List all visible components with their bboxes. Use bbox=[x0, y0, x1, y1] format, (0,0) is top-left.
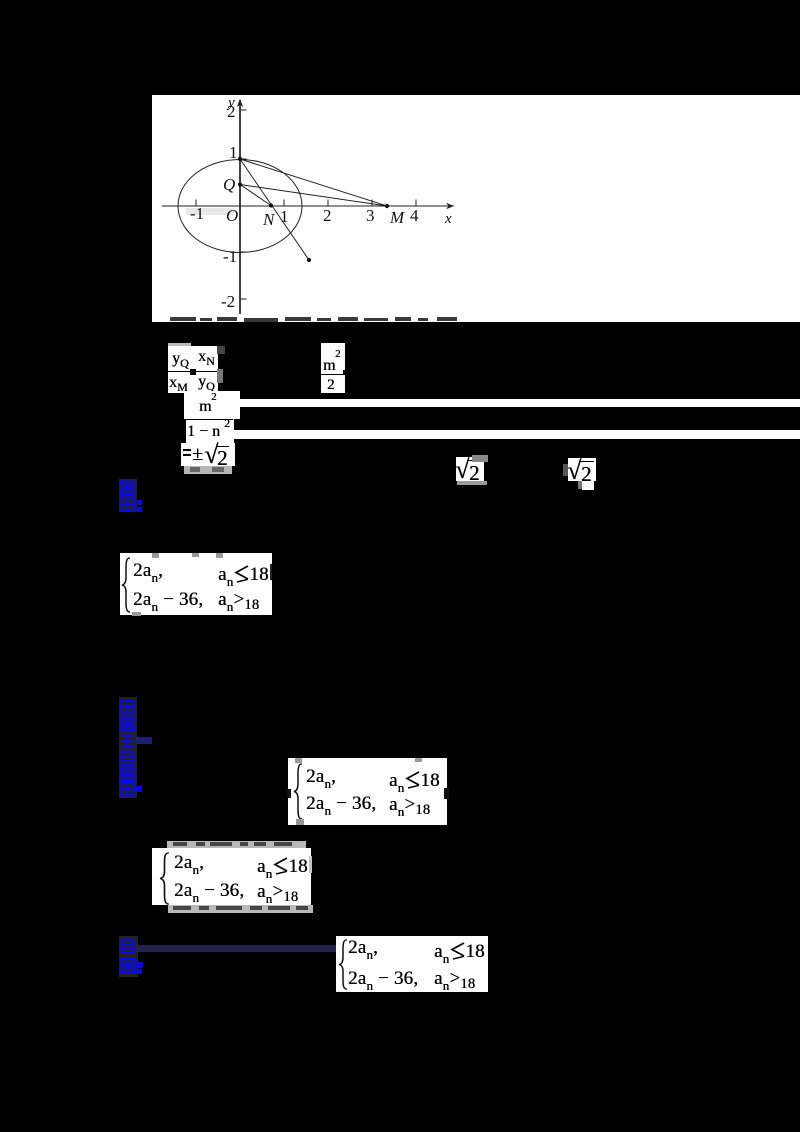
svg-text:-1: -1 bbox=[223, 247, 237, 266]
svg-text:1: 1 bbox=[280, 207, 289, 226]
y ticks bbox=[240, 109, 247, 111]
dots bbox=[238, 157, 389, 262]
svg-text:2: 2 bbox=[323, 206, 332, 225]
svg-text:x: x bbox=[444, 211, 452, 227]
svg-text:M: M bbox=[389, 208, 405, 227]
arrowheads bbox=[446, 203, 454, 209]
line Q-M bbox=[240, 185, 387, 207]
x ticks bbox=[195, 200, 197, 207]
line P(0,1)-M bbox=[240, 159, 387, 206]
svg-text:Q: Q bbox=[223, 175, 235, 194]
cut-off text row at bottom of image bbox=[170, 317, 457, 322]
navy dash bbox=[136, 737, 152, 744]
line Q-N bbox=[240, 185, 271, 206]
svg-text:N: N bbox=[262, 210, 276, 229]
svg-text:3: 3 bbox=[366, 206, 375, 225]
svg-text:O: O bbox=[226, 206, 238, 225]
ellipse x^2/2+y^2=1 bbox=[178, 160, 302, 253]
svg-text:2: 2 bbox=[227, 102, 236, 121]
svg-text:4: 4 bbox=[410, 206, 419, 225]
x axis bbox=[162, 205, 454, 207]
white strip rows extending to right edge bbox=[237, 399, 800, 407]
svg-text:-2: -2 bbox=[221, 292, 235, 311]
svg-text:1: 1 bbox=[229, 143, 238, 162]
line P-N extended bbox=[240, 159, 309, 260]
svg-text:-1: -1 bbox=[190, 204, 204, 223]
labels bbox=[190, 95, 452, 311]
